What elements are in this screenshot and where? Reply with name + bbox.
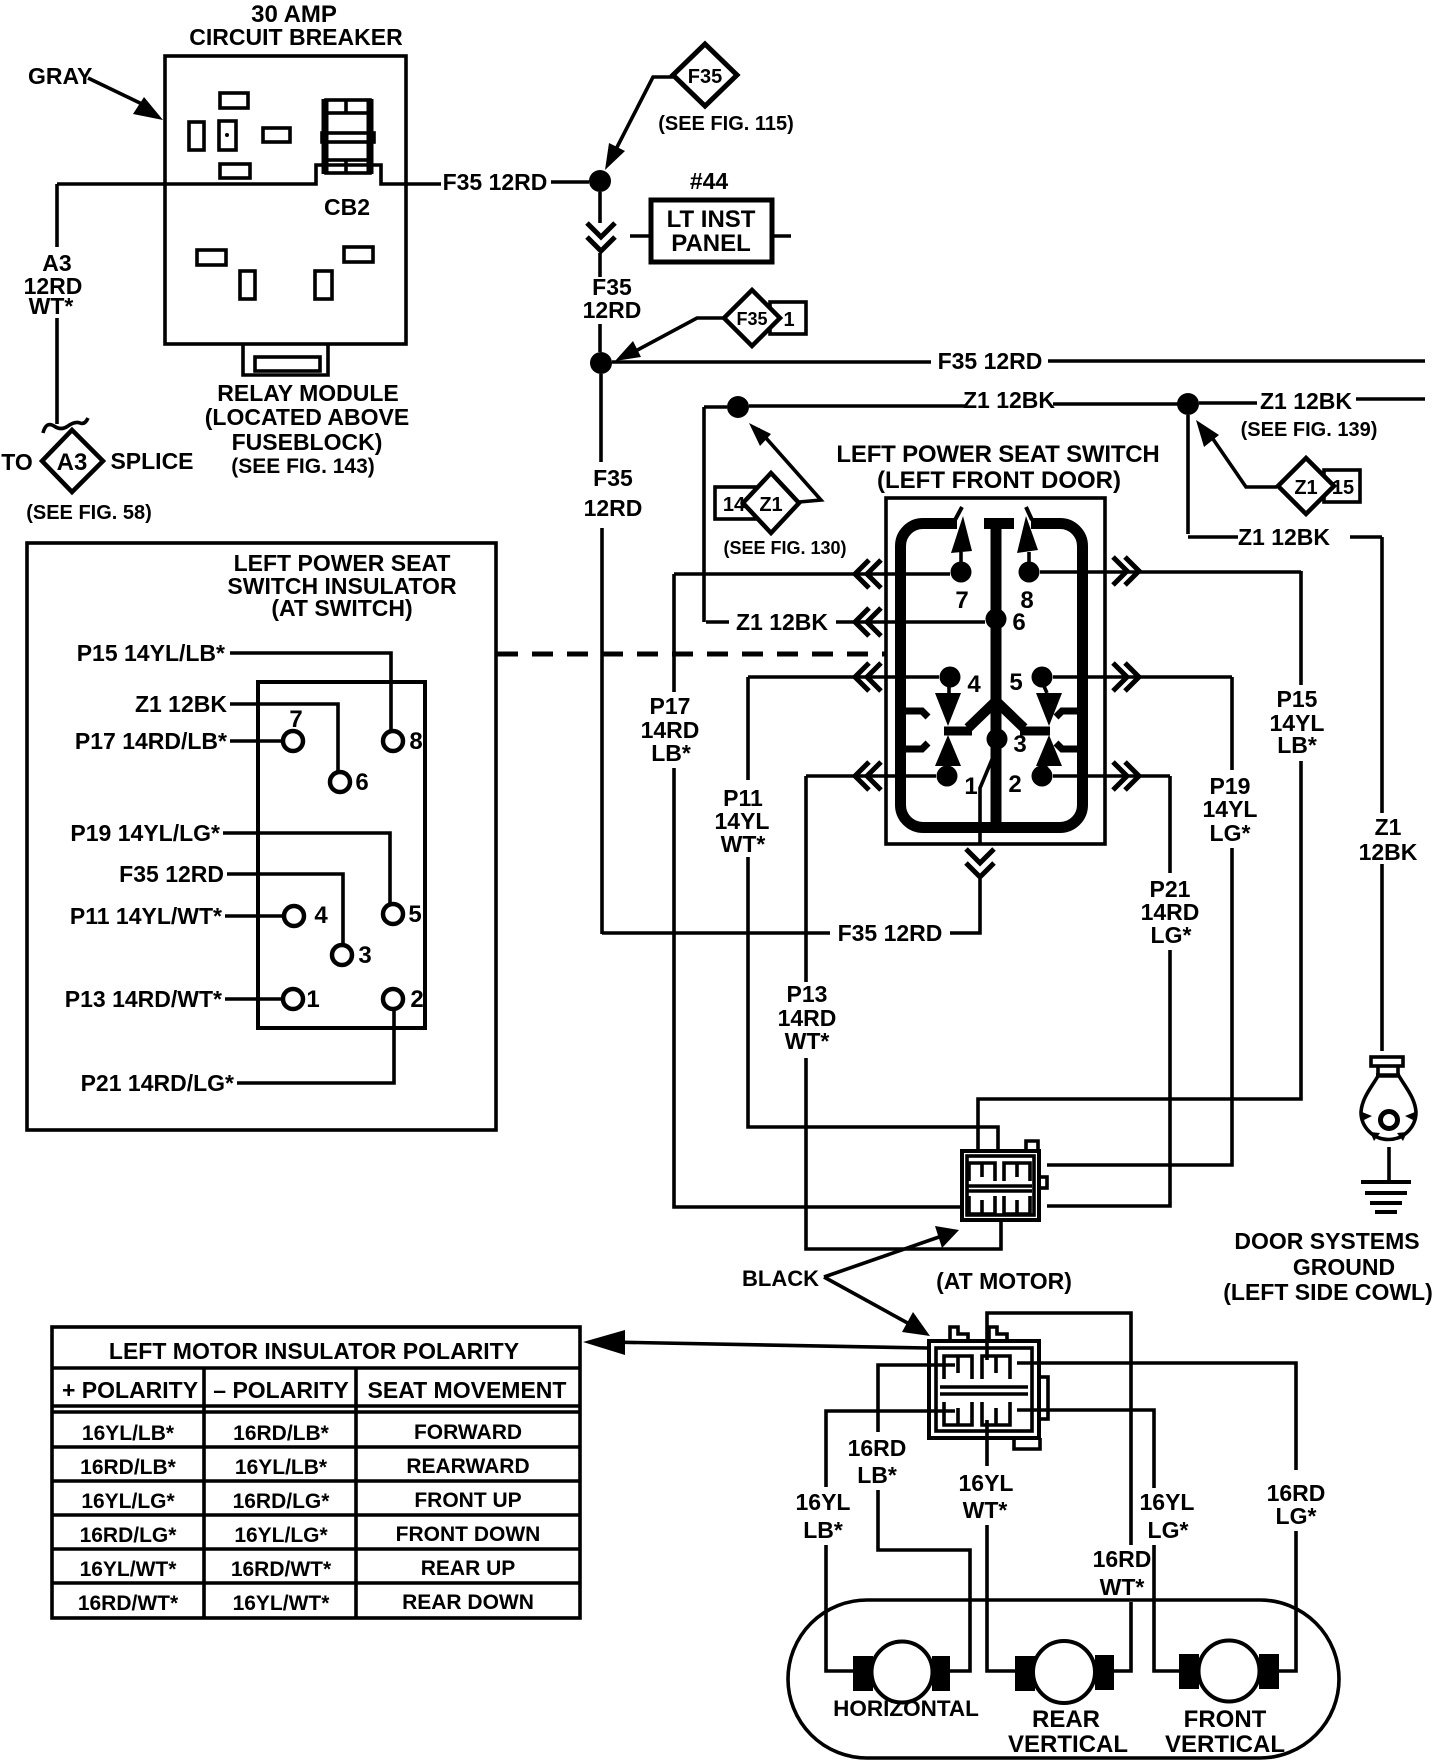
wire Z1 12BK down-left to switch pin 6: [702, 407, 706, 622]
svg-text:16RD/LG*: 16RD/LG*: [233, 1490, 331, 1513]
svg-text:DOOR SYSTEMS: DOOR SYSTEMS: [1234, 1228, 1419, 1254]
wire A3 12RD WT* branch: [57, 182, 165, 186]
svg-text:F35 12RD: F35 12RD: [443, 169, 548, 195]
svg-text:CIRCUIT BREAKER: CIRCUIT BREAKER: [189, 24, 403, 50]
svg-text:F35: F35: [688, 66, 722, 88]
svg-text:F35: F35: [593, 465, 633, 491]
dashed linkage line to switch: [497, 652, 886, 657]
svg-text:16YL/LB*: 16YL/LB*: [82, 1422, 175, 1445]
svg-text:16YL/WT*: 16YL/WT*: [233, 1592, 331, 1615]
wire F35 12RD main vertical: [601, 374, 602, 934]
svg-text:SPLICE: SPLICE: [110, 448, 193, 474]
arrow BLACK to lower motor connector: [824, 1277, 913, 1326]
svg-text:2: 2: [410, 986, 423, 1013]
svg-text:6: 6: [355, 769, 368, 796]
arrow from Z1 pin 14 symbol to left node: [758, 429, 821, 502]
svg-text:1: 1: [964, 773, 977, 800]
wire P19 14YL/LG*: [1047, 677, 1232, 1165]
insulator pin 4: [284, 906, 304, 926]
svg-text:(AT SWITCH): (AT SWITCH): [271, 595, 412, 621]
insulator pin 2: [383, 989, 403, 1009]
motor M2 rear vertical: [1015, 1641, 1114, 1703]
switch pin 4: [940, 667, 961, 688]
switch pin 8: [1019, 562, 1040, 583]
svg-text:PANEL: PANEL: [671, 230, 751, 257]
switch pin 6: [986, 609, 1007, 630]
svg-text:P17: P17: [650, 693, 691, 719]
wire F35 12RD horizontal to right edge: [612, 361, 1425, 362]
svg-text:FUSEBLOCK): FUSEBLOCK): [232, 429, 383, 455]
relay module bottom tab: [243, 344, 328, 375]
switch right contact hourglass: [1043, 684, 1047, 772]
svg-text:Z1: Z1: [1294, 477, 1317, 499]
svg-text:P13 14RD/WT*: P13 14RD/WT*: [65, 986, 222, 1012]
svg-text:16YL/WT*: 16YL/WT*: [80, 1558, 178, 1581]
GRAY pointer arrow: [88, 78, 142, 104]
svg-text:Z1 12BK: Z1 12BK: [1238, 524, 1330, 550]
svg-text:CB2: CB2: [324, 194, 370, 220]
wire F35 12RD from breaker to junction: [406, 182, 589, 184]
wire 16RD LG*: [1017, 1363, 1296, 1671]
ground symbol: [1387, 1147, 1391, 1181]
svg-text:16RD: 16RD: [848, 1435, 907, 1461]
svg-text:16RD/LG*: 16RD/LG*: [80, 1524, 178, 1547]
svg-text:14: 14: [723, 494, 746, 516]
svg-text:P19 14YL/LG*: P19 14YL/LG*: [70, 820, 220, 846]
svg-text:#44: #44: [690, 168, 729, 194]
switch center web: [991, 524, 1002, 828]
svg-text:P17 14RD/LB*: P17 14RD/LB*: [75, 728, 227, 754]
switch body curl ticks at arrow gaps: [955, 507, 1032, 520]
svg-text:8: 8: [409, 728, 422, 755]
svg-text:LG*: LG*: [1151, 922, 1192, 948]
wire Z1 12BK down from right node: [1186, 415, 1190, 534]
svg-text:(SEE FIG. 130): (SEE FIG. 130): [723, 538, 846, 558]
wire break symbol on A3 wire: [43, 418, 88, 433]
wire F35 12RD vertical: [598, 192, 602, 223]
svg-text:WT*: WT*: [1100, 1574, 1145, 1600]
svg-text:14YL: 14YL: [1203, 796, 1258, 822]
svg-text:LG*: LG*: [1210, 820, 1251, 846]
svg-text:(SEE FIG. 139): (SEE FIG. 139): [1241, 419, 1378, 441]
relay module internal divider with notch: [165, 165, 406, 184]
svg-text:WT*: WT*: [29, 293, 74, 319]
inline connector chevrons (down): [587, 223, 615, 251]
svg-text:12RD: 12RD: [584, 495, 643, 521]
ground bulb (door systems ground): [1361, 1057, 1416, 1141]
insulator pin 7: [283, 731, 303, 751]
svg-text:P21 14RD/LG*: P21 14RD/LG*: [81, 1070, 234, 1096]
connector at motor (motor side): [929, 1327, 1048, 1449]
wire pin 1 to P13: [806, 774, 936, 778]
svg-text:LEFT POWER SEAT SWITCH: LEFT POWER SEAT SWITCH: [836, 441, 1159, 468]
svg-text:SEAT MOVEMENT: SEAT MOVEMENT: [368, 1377, 567, 1403]
svg-text:Z1 12BK: Z1 12BK: [135, 691, 227, 717]
svg-text:(LEFT SIDE COWL): (LEFT SIDE COWL): [1223, 1279, 1433, 1305]
svg-text:WT*: WT*: [963, 1497, 1008, 1523]
svg-text:LB*: LB*: [803, 1517, 843, 1543]
svg-text:Z1: Z1: [759, 494, 782, 516]
svg-text:REARWARD: REARWARD: [406, 1455, 529, 1478]
svg-text:HORIZONTAL: HORIZONTAL: [833, 1696, 979, 1721]
switch arrow contact pin 8: [1027, 552, 1031, 572]
insulator inner outline: [258, 682, 425, 1028]
svg-text:LB*: LB*: [1277, 732, 1317, 758]
wire Z1 12BK horizontal: [704, 404, 1178, 407]
svg-text:16RD/LB*: 16RD/LB*: [233, 1422, 330, 1445]
box LT INST PANEL: [651, 200, 772, 262]
chevrons row pin 2: [1113, 762, 1139, 790]
wire pin 6 Z1 12BK: [706, 620, 985, 624]
splice symbol A3: [42, 430, 103, 492]
svg-text:(SEE FIG. 143): (SEE FIG. 143): [231, 455, 375, 478]
arrow BLACK to upper motor connector: [824, 1237, 939, 1277]
arrow from Z1 pin 15 symbol to node: [1213, 439, 1277, 487]
chevrons row pin 1: [855, 762, 881, 790]
motor M3 front vertical: [1179, 1641, 1279, 1702]
svg-text:F35 12RD: F35 12RD: [119, 861, 224, 887]
switch pin 7: [951, 562, 972, 583]
svg-text:12BK: 12BK: [1359, 839, 1418, 865]
label A3 12RD WT*: [24, 250, 83, 319]
chevrons below switch: [966, 849, 994, 877]
svg-text:FRONT DOWN: FRONT DOWN: [396, 1523, 541, 1546]
svg-text:(SEE FIG. 58): (SEE FIG. 58): [26, 502, 152, 524]
label DOOR SYSTEMS GROUND (LEFT SIDE COWL): [1223, 1228, 1433, 1305]
svg-text:4: 4: [967, 671, 981, 698]
chevrons row pin 8: [1113, 557, 1139, 585]
svg-text:F35 12RD: F35 12RD: [838, 920, 943, 946]
chevrons row pin 4: [855, 663, 881, 691]
svg-text:7: 7: [955, 587, 968, 614]
svg-text:– POLARITY: – POLARITY: [213, 1377, 348, 1403]
svg-text:LB*: LB*: [651, 740, 691, 766]
svg-text:TO: TO: [1, 449, 33, 475]
wire pin 5 to P19: [1053, 675, 1232, 679]
wire 16RD WT*: [987, 1313, 1131, 1671]
svg-text:P13: P13: [787, 981, 828, 1007]
label RELAY MODULE: [205, 380, 409, 478]
wire pin 4 to P11: [748, 675, 939, 679]
svg-text:LG*: LG*: [1276, 1503, 1317, 1529]
svg-text:2: 2: [1008, 771, 1021, 798]
svg-text:P15: P15: [1277, 686, 1318, 712]
svg-text:16YL/LB*: 16YL/LB*: [235, 1456, 328, 1479]
svg-text:16RD/WT*: 16RD/WT*: [78, 1592, 179, 1615]
svg-text:WT*: WT*: [785, 1028, 830, 1054]
svg-text:A3: A3: [57, 449, 88, 476]
table LEFT MOTOR INSULATOR POLARITY: [52, 1327, 580, 1618]
wire F35 12RD to pin 3: [602, 879, 980, 933]
relay internal terminal rects bottom half: [197, 247, 373, 299]
svg-text:16RD/WT*: 16RD/WT*: [231, 1558, 332, 1581]
chevrons row pin 5: [1113, 663, 1139, 691]
svg-text:(AT MOTOR): (AT MOTOR): [936, 1268, 1072, 1294]
svg-text:P11 14YL/WT*: P11 14YL/WT*: [70, 903, 222, 929]
svg-text:12RD: 12RD: [583, 297, 642, 323]
svg-text:REAR DOWN: REAR DOWN: [402, 1591, 534, 1614]
wire P17 14RD/LB*: [674, 574, 962, 1207]
svg-text:16YL: 16YL: [959, 1470, 1014, 1496]
arrow from motor connector to polarity table: [608, 1342, 928, 1348]
svg-text:VERTICAL: VERTICAL: [1165, 1731, 1285, 1758]
circuit breaker CB2 symbol: [322, 99, 374, 174]
svg-text:16YL/LG*: 16YL/LG*: [234, 1524, 328, 1547]
wire P11 14YL/WT*: [748, 677, 998, 1151]
motor M1 horizontal: [853, 1642, 950, 1703]
svg-text:Z1 12BK: Z1 12BK: [1260, 388, 1352, 414]
switch pin 1: [937, 766, 958, 787]
svg-text:GROUND: GROUND: [1293, 1254, 1395, 1280]
svg-text:15: 15: [1332, 477, 1354, 499]
svg-text:16YL: 16YL: [1140, 1489, 1195, 1515]
connector symbol F35 pin 1: [770, 302, 806, 334]
wire pin 3 F35 down: [980, 750, 996, 845]
node F35 junction 2: [590, 352, 612, 374]
svg-text:FORWARD: FORWARD: [414, 1421, 522, 1444]
svg-text:RELAY MODULE: RELAY MODULE: [217, 380, 398, 406]
chevrons row pin 7: [855, 560, 881, 588]
switch stationary contacts right: [1056, 711, 1079, 749]
switch S1 outer box: [886, 498, 1105, 844]
svg-text:LG*: LG*: [1148, 1517, 1189, 1543]
node Z1 junction left: [727, 396, 749, 418]
chevrons row pin 6: [855, 608, 881, 636]
svg-text:BLACK: BLACK: [742, 1266, 819, 1291]
svg-text:Z1 12BK: Z1 12BK: [963, 387, 1055, 413]
wire pin 7 to P17: [674, 572, 950, 576]
seat track outline: [788, 1600, 1339, 1758]
switch arrow contact pin 7: [959, 552, 963, 572]
svg-text:16YL: 16YL: [796, 1489, 851, 1515]
svg-text:16RD/LB*: 16RD/LB*: [80, 1456, 177, 1479]
svg-text:FRONT: FRONT: [1184, 1706, 1267, 1733]
switch pin 5: [1032, 667, 1053, 688]
svg-text:16YL/LG*: 16YL/LG*: [81, 1490, 175, 1513]
wire F35 12RD vertical to junction 2: [598, 324, 602, 352]
switch pin 2: [1032, 766, 1053, 787]
svg-text:F35 12RD: F35 12RD: [938, 348, 1043, 374]
svg-text:FRONT UP: FRONT UP: [414, 1489, 521, 1512]
svg-text:P15 14YL/LB*: P15 14YL/LB*: [77, 640, 225, 666]
connector symbol Z1 pin 14: [715, 487, 755, 519]
relay module box (contains CB2): [165, 56, 406, 344]
svg-text:3: 3: [1013, 731, 1026, 758]
wire pin 2 to P21: [1053, 774, 1170, 778]
node F35 junction 1: [589, 170, 611, 192]
svg-text:(LOCATED ABOVE: (LOCATED ABOVE: [205, 404, 409, 430]
svg-text:16RD: 16RD: [1093, 1546, 1152, 1572]
svg-text:F35: F35: [736, 309, 767, 329]
insulator pin 5: [383, 904, 403, 924]
insulator pin 8: [383, 731, 403, 751]
switch pin 3: [987, 729, 1008, 750]
switch stationary contacts left: [905, 711, 928, 749]
svg-text:VERTICAL: VERTICAL: [1008, 1731, 1128, 1758]
wire 16YL LG*: [1017, 1410, 1179, 1671]
svg-text:Z1: Z1: [1375, 814, 1402, 840]
svg-text:(SEE FIG. 115): (SEE FIG. 115): [658, 113, 794, 135]
svg-text:5: 5: [408, 901, 421, 928]
svg-text:1: 1: [306, 986, 319, 1013]
svg-text:LB*: LB*: [857, 1462, 897, 1488]
wire 16YL WT*: [987, 1420, 1015, 1671]
connector symbol F35 (see fig 115): [673, 44, 737, 106]
insulator pin 6: [330, 772, 350, 792]
svg-text:REAR UP: REAR UP: [421, 1557, 516, 1580]
svg-text:+ POLARITY: + POLARITY: [62, 1377, 198, 1403]
LT INST PANEL stubs: [630, 234, 791, 238]
svg-text:LEFT MOTOR INSULATOR POLARITY: LEFT MOTOR INSULATOR POLARITY: [109, 1338, 519, 1364]
svg-text:WT*: WT*: [721, 831, 766, 857]
connector at motor (switch side): [962, 1141, 1047, 1220]
svg-text:4: 4: [314, 902, 328, 929]
svg-text:6: 6: [1012, 609, 1025, 636]
wire pin 8 to P15: [1040, 570, 1301, 574]
wire P21 14RD/LG*: [1047, 776, 1170, 1206]
svg-text:Z1 12BK: Z1 12BK: [736, 609, 828, 635]
wire P15 14YL/LB*: [978, 571, 1301, 1151]
wire 16YL LB*: [826, 1411, 955, 1671]
svg-text:(LEFT FRONT DOOR): (LEFT FRONT DOOR): [877, 467, 1121, 494]
node Z1 junction right: [1177, 393, 1199, 415]
svg-text:REAR: REAR: [1032, 1706, 1100, 1733]
relay internal terminal rects top half: [189, 93, 290, 178]
connector symbol Z1 pin 15: [1324, 470, 1360, 502]
insulator pin 1: [283, 989, 303, 1009]
switch left contact hourglass: [947, 684, 951, 693]
svg-text:7: 7: [289, 706, 302, 733]
svg-text:3: 3: [358, 942, 371, 969]
svg-text:GRAY: GRAY: [28, 63, 92, 89]
insulator pin 3: [332, 945, 352, 965]
arrow from F35 pin 1 symbol to node: [630, 318, 724, 354]
box LEFT POWER SEAT SWITCH INSULATOR: [27, 543, 496, 1130]
arrow from F35 symbol to node: [612, 77, 673, 157]
label 30 AMP CIRCUIT BREAKER: [189, 1, 403, 50]
wire P13 14RD/WT*: [806, 776, 1001, 1249]
svg-text:LT INST: LT INST: [667, 206, 756, 233]
wire Z1 12BK right branch: [1380, 537, 1384, 1051]
svg-text:1: 1: [783, 309, 794, 331]
svg-text:5: 5: [1009, 669, 1022, 696]
wire 16RD LB*: [878, 1365, 970, 1671]
switch S1 thick body outline: [901, 524, 1083, 828]
